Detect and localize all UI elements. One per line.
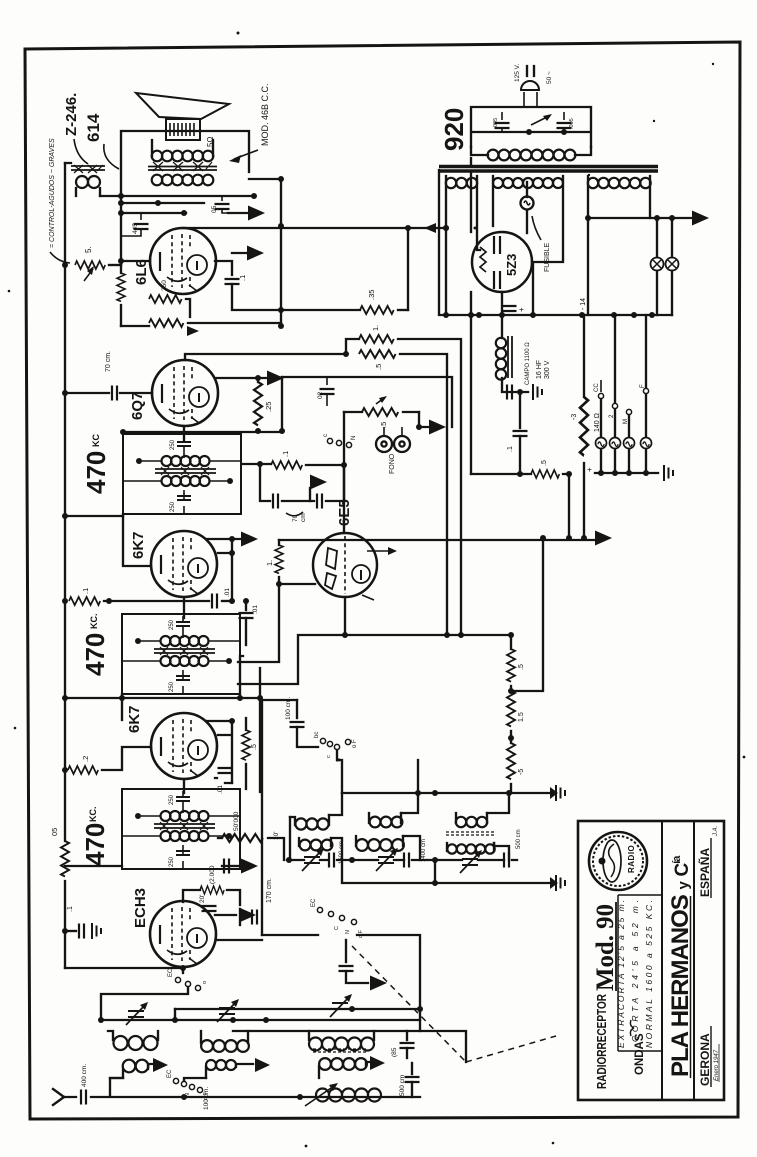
svg-text:6Q7: 6Q7: [129, 392, 146, 420]
switch: [531, 116, 549, 125]
wire plate 6Q7: [185, 354, 346, 360]
svg-text:.5: .5: [541, 460, 548, 466]
wire grid 6K7a: [123, 514, 151, 566]
capacitor 445: [140, 213, 142, 220]
wire 6E5 grid feed: [343, 412, 345, 533]
antenna: [53, 1089, 76, 1105]
wire IFT2 right links: [240, 656, 243, 698]
svg-text:400 cm.: 400 cm.: [81, 1064, 88, 1087]
svg-text:920: 920: [439, 108, 469, 151]
wire screen 6K7b: [206, 721, 232, 783]
capacitor .005: [563, 112, 565, 120]
resistor .2: [68, 766, 98, 774]
wire osc section left: [262, 700, 297, 935]
svg-text:.005: .005: [569, 118, 575, 129]
tube 6E5: [313, 533, 377, 597]
svg-text:RADIORRECEPTOR: RADIORRECEPTOR: [594, 994, 609, 1089]
title block frame: [578, 821, 724, 1100]
svg-text:6L6: 6L6: [133, 259, 150, 285]
wire 6E5 ground line: [279, 539, 594, 541]
ant coil L6: [319, 1058, 367, 1070]
wire IFT1 bottom to bus: [65, 515, 123, 517]
svg-text:300 V: 300 V: [544, 360, 551, 379]
svg-text:- 14: - 14: [580, 298, 587, 310]
resistor .05 on bus: [61, 841, 69, 877]
capacitor + arrow osc: [215, 914, 236, 916]
svg-text:.5: .5: [251, 744, 258, 750]
svg-text:02: 02: [317, 391, 324, 399]
IF transformer IFT2 470KC: [122, 614, 240, 694]
capacitor .01 second: [218, 768, 233, 773]
ant coil L4: [123, 1060, 149, 1073]
transformer primary coil: [488, 150, 576, 161]
resistor .5 plate load: [242, 730, 250, 760]
wire screen vertical: [281, 179, 408, 326]
svg-text:.1: .1: [67, 906, 74, 912]
resistor 140 ohm: [583, 315, 585, 397]
capacitor + ground det: [222, 865, 232, 867]
svg-text:.1: .1: [281, 451, 290, 457]
potentiometer .5 tone: [75, 261, 105, 269]
svg-text:.1: .1: [507, 446, 514, 452]
osc coil C secondary: [447, 844, 494, 853]
capacitor .1 out: [519, 392, 521, 428]
varcap VC3: [330, 994, 352, 1017]
svg-text:1400 cm: 1400 cm: [421, 839, 427, 862]
wire ECH3 cathode: [65, 968, 183, 973]
svg-text:.2: .2: [81, 756, 90, 762]
capacitor 400cm: [81, 1090, 86, 1105]
resistor .5 col lower: [510, 731, 512, 743]
svg-text:250: 250: [161, 280, 168, 291]
svg-text:GERONA: GERONA: [698, 1033, 712, 1086]
svg-text:125 V.: 125 V.: [514, 64, 521, 82]
svg-text:6K7: 6K7: [126, 705, 143, 733]
wire ECH3 to osc: [216, 939, 262, 941]
wire bus under speaker: [100, 196, 254, 213]
wire 6K7a to IFT2: [183, 597, 185, 618]
svg-text:470: 470: [80, 633, 110, 676]
svg-text:.35: .35: [367, 290, 376, 300]
capacitor grid coupling: [245, 601, 247, 610]
trimmer T2: [376, 848, 398, 871]
choke Z-246: [76, 176, 100, 188]
svg-text:bc: bc: [314, 732, 320, 738]
svg-text:cm: cm: [300, 513, 307, 522]
osc coil C primary: [456, 817, 487, 827]
ground: [232, 252, 246, 254]
svg-text:o F: o F: [358, 929, 364, 938]
wire 6E5 cathode to bus: [344, 597, 346, 635]
svg-text:170 cm.: 170 cm.: [266, 878, 273, 903]
transformer core: [439, 167, 658, 172]
svg-text:EXTRACORTA 12'5 a 25 m.: EXTRACORTA 12'5 a 25 m.: [616, 900, 626, 1048]
wire B+ bottom bus: [439, 170, 672, 338]
svg-text:-3: -3: [571, 414, 578, 420]
svg-text:5.: 5.: [84, 246, 93, 253]
wire AVC row: [123, 377, 282, 432]
heater lamps: [601, 394, 646, 437]
capacitor 500cm: [504, 853, 509, 868]
ondas rows box: [618, 895, 662, 1051]
speaker box: [121, 131, 249, 265]
wire IFT2 bottom bus: [65, 668, 260, 792]
svg-text:EC: EC: [311, 898, 317, 907]
svg-text:.01: .01: [252, 605, 259, 614]
svg-text:MOD. 46B C.C.: MOD. 46B C.C.: [260, 83, 270, 146]
osc coil A primary: [295, 818, 328, 829]
svg-text:RADIO: RADIO: [627, 845, 636, 873]
tube 6K7 second: [151, 713, 217, 779]
svg-text:CAMPO 1100 Ω: CAMPO 1100 Ω: [525, 342, 531, 385]
svg-text:J.A.: J.A.: [713, 826, 719, 837]
tube ECH3: [150, 901, 216, 967]
wire mid bus: [238, 635, 511, 684]
switch contacts AF: [327, 438, 332, 443]
svg-text:.1: .1: [81, 588, 90, 594]
resistor .5 col: [510, 635, 512, 649]
svg-text:c: c: [323, 434, 329, 437]
primary box: [471, 107, 591, 147]
resistor 250: [149, 295, 182, 303]
svg-text:1.: 1.: [371, 325, 380, 331]
speaker cone: [136, 93, 229, 119]
capacitor 05: [221, 196, 223, 201]
svg-text:C: C: [334, 926, 340, 930]
svg-text:.01: .01: [224, 588, 231, 597]
osc coil B primary: [370, 817, 403, 828]
svg-text:5Z3: 5Z3: [504, 254, 519, 276]
capacitor 70cm grid 6Q7: [65, 392, 109, 394]
fuse: [526, 182, 528, 197]
wire 6K7b to IFT3: [183, 779, 185, 793]
wire plate bus 6L6: [183, 179, 446, 228]
resistor T: [149, 319, 183, 327]
svg-text:ECH3: ECH3: [132, 888, 149, 928]
resistor osc grid 2000: [183, 890, 200, 902]
secondary coil G2 HV: [493, 178, 563, 188]
ant coil L5: [206, 1060, 236, 1070]
wire screen 6K7a ground: [206, 538, 240, 540]
svg-text:EC: EC: [167, 1069, 173, 1078]
tuning gang cap: [345, 940, 347, 962]
svg-text:6K7: 6K7: [130, 531, 147, 559]
cap + chassis gnd AVC end: [65, 930, 76, 932]
resistor cathode vertical: [117, 273, 125, 301]
secondary coil G3 heater: [588, 178, 651, 188]
svg-text:KC.: KC.: [89, 614, 99, 630]
mains plug: [527, 66, 534, 76]
svg-text:.5: .5: [374, 364, 383, 370]
wire col to 6E5 target: [511, 538, 543, 691]
wire grid 6L6: [121, 260, 150, 262]
wire cathode 6Q7 ground: [215, 377, 266, 379]
potentiometer .5 volume: [362, 408, 398, 416]
svg-text:FONO: FONO: [389, 453, 396, 474]
resistor 1.5 col: [510, 686, 512, 691]
resistor .25: [254, 382, 262, 425]
svg-text:NORMAL 1600 a 525 KC.: NORMAL 1600 a 525 KC.: [644, 900, 654, 1048]
dashed gang link: [352, 946, 556, 1062]
logo circle: [589, 832, 647, 890]
svg-text:EC: EC: [168, 968, 174, 977]
wire AVC bus left: [64, 163, 66, 968]
svg-text:N: N: [351, 436, 357, 440]
resistor 50000 detector: [218, 837, 222, 839]
capacitor 1400cm: [404, 853, 409, 868]
ant coil L2: [201, 1040, 249, 1052]
specks: [237, 32, 240, 35]
IF transformer IFT3 470KC: [122, 789, 240, 869]
svg-text:Mod. 90: Mod. 90: [592, 904, 619, 991]
choke field coil: [496, 338, 506, 380]
svg-text:.1: .1: [238, 275, 247, 281]
switch wafer ant: [173, 1078, 178, 1083]
capacitor .01 cathode: [212, 594, 217, 609]
resistor .1 AVC: [243, 463, 271, 465]
tube 6K7 first: [151, 531, 217, 597]
varcap VC2: [217, 999, 239, 1022]
svg-text:445: 445: [132, 223, 139, 234]
jack FONO: [376, 436, 392, 452]
ant coil L3: [309, 1038, 374, 1051]
capacitor 02: [326, 377, 328, 385]
svg-text:614: 614: [84, 113, 103, 142]
capacitor 1600cm: [329, 853, 334, 868]
wire heater top bus + ground: [588, 217, 691, 219]
wire bottom bus: [91, 1096, 420, 1098]
wire 6Q7 to IFT1: [183, 426, 185, 440]
svg-text:1.: 1.: [265, 560, 274, 566]
resistor .35: [360, 306, 394, 314]
pilot lamp 2: [671, 218, 673, 257]
trimmer T3: [460, 850, 482, 873]
IF transformer IFT1 470KC: [123, 434, 241, 514]
svg-text:.25: .25: [264, 402, 273, 412]
wire IFT3 bottom: [65, 865, 122, 867]
capacitor .1: [215, 261, 232, 275]
resistor 1. 6E5: [278, 540, 280, 545]
switch wafer 2: [317, 907, 322, 912]
svg-text:+: +: [585, 467, 594, 472]
speaker voice coil: [166, 119, 200, 140]
trimmer T1: [302, 848, 324, 871]
tube 5Z3: [472, 232, 532, 292]
svg-text:N: N: [345, 930, 351, 934]
capacitor 20: [202, 906, 217, 911]
svg-text:(2.000: (2.000: [209, 865, 216, 884]
svg-text:c: c: [326, 755, 332, 758]
svg-text:50'000: 50'000: [233, 811, 240, 831]
switch wafer osc top: [320, 738, 325, 743]
svg-text:+: +: [517, 307, 526, 312]
resistor .5 bleeder: [471, 473, 531, 475]
resistor .1 cathode bus: [69, 597, 100, 605]
svg-text:FUSIBLE: FUSIBLE: [544, 242, 551, 272]
wire heater bottom + chassis ground: [595, 472, 658, 474]
wire ant buses: [101, 1009, 466, 1062]
wire AVC caps row: [260, 464, 344, 501]
secondary coil G1: [446, 178, 477, 188]
resistor 1.: [359, 335, 394, 343]
wire osc bus lower: [287, 859, 517, 861]
svg-text:470: 470: [81, 451, 111, 494]
ground small: [309, 488, 311, 501]
svg-text:50 ~: 50 ~: [546, 71, 553, 84]
wire choke to ground: [502, 378, 528, 392]
wire osc return bus + ground: [342, 760, 550, 883]
svg-text:o F: o F: [352, 739, 358, 748]
svg-text:05: 05: [211, 205, 218, 213]
svg-text:-5: -5: [518, 769, 525, 775]
svg-text:o: o: [202, 981, 208, 984]
ground: [228, 212, 247, 214]
resistor .5: [359, 350, 396, 358]
switch wafer ECH3: [175, 977, 180, 982]
wire coil feeds: [290, 793, 509, 860]
svg-text:(85: (85: [391, 1047, 398, 1057]
osc coil B secondary: [356, 839, 404, 851]
wire osc bus upper + ground: [342, 792, 550, 794]
capacitor electrolytic: [502, 306, 517, 311]
svg-text:= CONTROL-AGUDOS ~ GRAVES: = CONTROL-AGUDOS ~ GRAVES: [49, 138, 56, 248]
svg-text:70: 70: [292, 514, 299, 522]
svg-text:20': 20': [199, 895, 206, 903]
pilot lamp 1: [656, 218, 658, 257]
ant coil L1: [114, 1036, 158, 1050]
svg-text:KC: KC: [91, 434, 101, 447]
osc padder coil L7: [316, 1089, 381, 1102]
capacitor 100cm osc: [296, 700, 298, 718]
svg-text:70 cm.: 70 cm.: [105, 351, 112, 372]
svg-text:6E5: 6E5: [336, 499, 353, 526]
wire to .35: [281, 309, 360, 311]
wire rectifier cage: [446, 158, 650, 474]
osc coil A secondary: [300, 840, 333, 851]
svg-text:16 HF: 16 HF: [536, 360, 543, 379]
svg-text:05: 05: [50, 828, 59, 836]
svg-text:KC.: KC.: [88, 807, 98, 823]
output transformer T1: [152, 151, 214, 162]
svg-text:ESPAÑA: ESPAÑA: [697, 848, 712, 897]
svg-text:500 cm: 500 cm: [516, 829, 522, 849]
svg-text:Z-246.: Z-246.: [63, 93, 80, 136]
svg-text:CC: CC: [594, 383, 600, 392]
tube 6Q7: [152, 360, 218, 426]
svg-text:.5: .5: [518, 664, 525, 670]
wire box AF input: [282, 377, 452, 427]
svg-text:005: 005: [493, 118, 499, 127]
capacitor in primary box: [501, 112, 503, 120]
svg-text:1.5: 1.5: [518, 712, 525, 722]
svg-text:470: 470: [80, 823, 110, 866]
varcap VC1: [126, 1002, 148, 1025]
svg-text:100 cm.: 100 cm.: [203, 1087, 210, 1110]
tube 6L6: [150, 228, 216, 294]
